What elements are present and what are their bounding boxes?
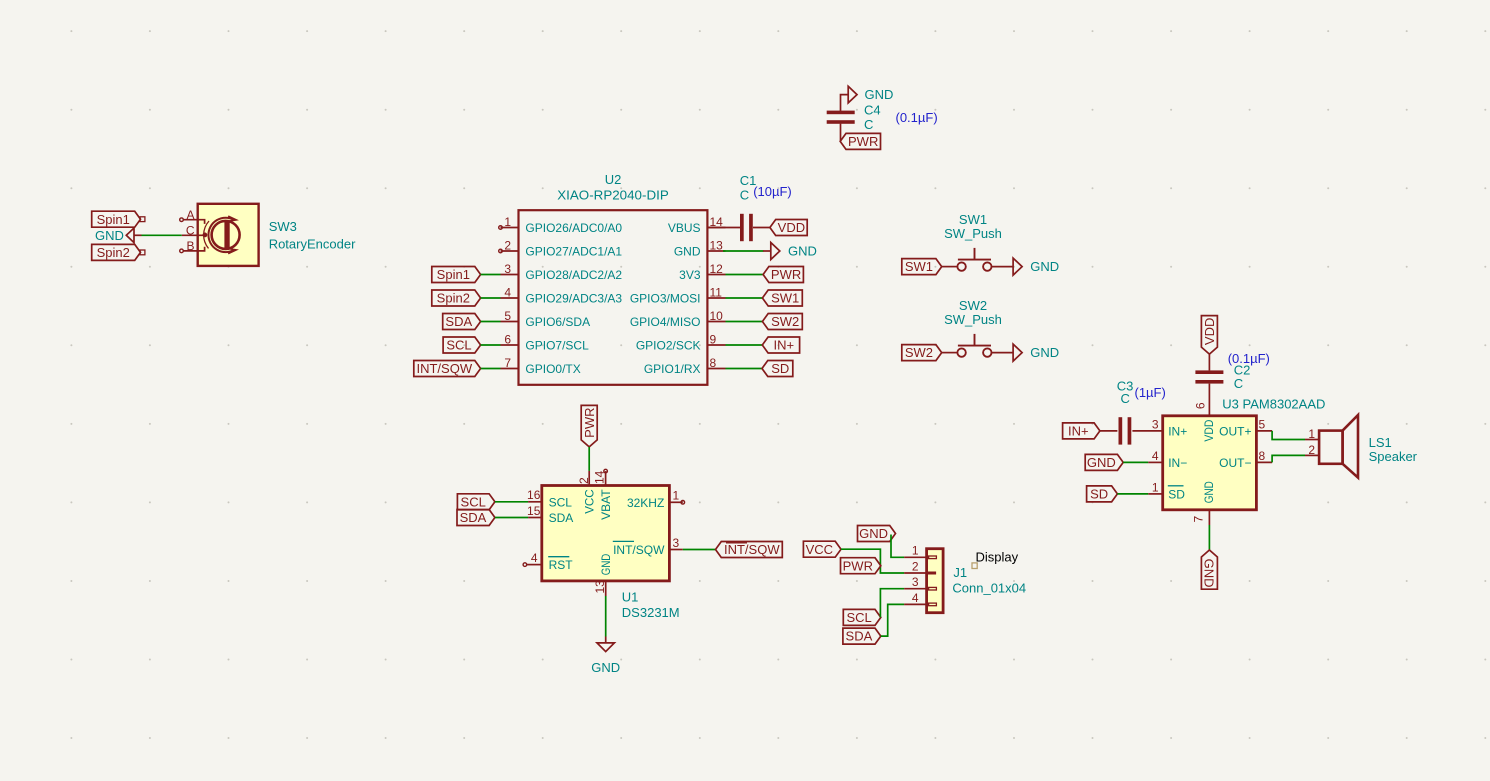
U1 pin 15 SDA (527, 504, 573, 525)
U3 pin 8 OUT- (1219, 449, 1272, 470)
C2 reference (1234, 362, 1251, 377)
gnd flag (at SW2) (1013, 344, 1059, 361)
U2 pin 12 3V3 (679, 262, 725, 282)
svg-text:13: 13 (710, 239, 724, 253)
svg-text:5: 5 (504, 309, 511, 323)
SW3 value RotaryEncoder (269, 237, 356, 252)
U3 pin 1 SD (1148, 480, 1185, 501)
wire U2 pin 10 to SW2 (726, 321, 763, 323)
U3 pin 3 IN+ (1132, 417, 1187, 438)
Display anchor square (972, 563, 977, 569)
LS1 pin 1 (1305, 427, 1319, 441)
U3 pin name GND (1202, 481, 1216, 503)
svg-text:3: 3 (673, 536, 680, 550)
wire GND to J1 pin 1 (891, 535, 904, 558)
svg-text:Spin1: Spin1 (97, 212, 130, 227)
svg-text:SW2: SW2 (905, 345, 933, 360)
U2 pin 6 GPIO7/SCL (501, 333, 590, 353)
wire SDA to U1 pin 15 (495, 517, 528, 519)
svg-text:B: B (186, 239, 194, 253)
wire SCL to J1 pin 3 (880, 589, 904, 618)
svg-text:SCL: SCL (549, 495, 573, 509)
global label VCC (at J1) (803, 541, 841, 557)
wire U3 pin 7 to GND label (1208, 525, 1210, 550)
wire SCL to U1 pin 16 (495, 501, 528, 503)
svg-text:4: 4 (504, 286, 511, 300)
svg-text:SDA: SDA (460, 510, 487, 525)
svg-text:16: 16 (527, 488, 541, 502)
svg-text:VCC: VCC (583, 489, 597, 514)
U2 pin 10 GPIO4/MISO (630, 309, 726, 329)
svg-text:SW_Push: SW_Push (944, 312, 1002, 327)
global label INT/SQW (at U2 pin 7) (414, 361, 481, 377)
global label SDA (at J1) (843, 628, 881, 644)
wire IN+ label to C3 (1100, 430, 1118, 432)
U1 pin 3 INT/SQW (613, 536, 683, 557)
svg-text:GND: GND (95, 228, 124, 243)
global label SD (at U3 pin 1) (1087, 486, 1118, 502)
SW3 reference (269, 219, 297, 234)
wire GND to SW3 pin C (142, 234, 182, 236)
U1 reference (622, 589, 639, 604)
switch SW1 body (942, 248, 1013, 271)
svg-text:2: 2 (912, 559, 919, 573)
U2 pin 3 GPIO28/ADC2/A2 (501, 262, 623, 282)
global label IN+ (at U2 pin 9) (762, 337, 799, 353)
svg-text:INT/SQW: INT/SQW (416, 361, 472, 376)
svg-text:6: 6 (1193, 402, 1207, 409)
svg-text:OUT+: OUT+ (1219, 424, 1251, 438)
speaker LS1 body (1319, 415, 1358, 478)
svg-text:3: 3 (504, 262, 511, 276)
U2 pin 7 GPIO0/TX (501, 356, 581, 376)
SW1 reference (959, 212, 987, 227)
svg-text:VDD: VDD (778, 220, 805, 235)
rotary encoder SW3 body (198, 204, 259, 266)
C3 value (1uF) (1135, 385, 1166, 400)
global label SW1 (at switch SW1) (902, 259, 942, 275)
svg-text:10: 10 (710, 309, 724, 323)
svg-text:GPIO0/TX: GPIO0/TX (525, 362, 580, 376)
svg-text:SD: SD (771, 361, 789, 376)
global label INT/SQW (at U1 pin 3) (716, 542, 783, 558)
gnd flag (net GND at C4) (848, 86, 893, 103)
global label Spin2 (at U2 pin 4) (432, 290, 481, 306)
SW2 value SW_Push (944, 312, 1002, 327)
svg-text:1: 1 (1152, 480, 1159, 494)
U3 reference and value (1222, 397, 1325, 412)
svg-text:GPIO29/ADC3/A3: GPIO29/ADC3/A3 (525, 291, 622, 305)
SW3 pin C (182, 223, 205, 237)
svg-text:6: 6 (504, 333, 511, 347)
J1 reference (953, 565, 967, 580)
C3 value C (1121, 391, 1130, 406)
svg-text:C4: C4 (864, 103, 881, 118)
U2 pin 14 VBUS (668, 215, 726, 235)
wire SCL to U2 pin 6 (481, 344, 501, 346)
svg-text:SDA: SDA (549, 511, 574, 525)
svg-text:SDA: SDA (846, 629, 873, 644)
U1 pin 1 32KHZ (627, 489, 685, 510)
SW2 reference (959, 298, 987, 313)
svg-text:DS3231M: DS3231M (622, 605, 680, 620)
U2 reference (605, 172, 622, 187)
svg-text:GPIO1/RX: GPIO1/RX (644, 362, 701, 376)
svg-text:C: C (186, 223, 195, 237)
svg-text:VBUS: VBUS (668, 221, 701, 235)
svg-text:Display: Display (976, 550, 1019, 565)
svg-text:LS1: LS1 (1369, 435, 1392, 450)
svg-text:4: 4 (531, 551, 538, 565)
svg-text:GND: GND (859, 526, 888, 541)
svg-text:IN+: IN+ (1068, 424, 1089, 439)
svg-text:SCL: SCL (461, 494, 486, 509)
C2 value (0.1uF) (1228, 351, 1270, 366)
U1 pin 4 RST (523, 551, 573, 572)
svg-text:C: C (864, 117, 873, 132)
ground symbol (at U1) (591, 637, 620, 675)
text label Display (976, 550, 1019, 565)
switch SW2 body (942, 334, 1013, 357)
U2 pin 2 GPIO27/ADC1/A1 (499, 239, 623, 259)
svg-text:3: 3 (1152, 417, 1159, 431)
svg-text:Speaker: Speaker (1369, 449, 1418, 464)
svg-text:GPIO4/MISO: GPIO4/MISO (630, 315, 701, 329)
svg-text:SCL: SCL (446, 338, 471, 353)
svg-text:VCC: VCC (806, 542, 833, 557)
svg-text:VDD: VDD (1202, 419, 1216, 441)
C4 value (0.1uF) (896, 110, 938, 125)
svg-text:Spin2: Spin2 (97, 245, 130, 260)
svg-text:VBAT: VBAT (599, 489, 613, 520)
svg-text:SW_Push: SW_Push (944, 226, 1002, 241)
U3 pin 5 OUT+ (1219, 417, 1272, 438)
svg-text:(10µF): (10µF) (753, 184, 792, 199)
wire C1 to VDD label (753, 227, 770, 229)
LS1 reference (1369, 435, 1392, 450)
J1 value Conn_01x04 (952, 580, 1026, 595)
svg-text:SW1: SW1 (905, 259, 933, 274)
U2 pin 9 GPIO2/SCK (636, 333, 726, 353)
gnd flag (at SW1) (1013, 258, 1059, 275)
wire U2 pin 12 to PWR (726, 274, 764, 276)
wire U2 pin 13 to GND flag (723, 250, 764, 252)
global label GND (at U3 pin 7) (1201, 550, 1217, 589)
svg-text:VDD: VDD (1202, 318, 1217, 345)
wire U2 pin 9 to IN+ (726, 344, 763, 346)
svg-text:GPIO26/ADC0/A0: GPIO26/ADC0/A0 (525, 221, 622, 235)
U2 pin 8 GPIO1/RX (644, 356, 726, 376)
wire U1 pin 3 to INT/SQW label (683, 549, 716, 551)
capacitor C2 (1195, 370, 1223, 383)
svg-text:5: 5 (1259, 417, 1266, 431)
U2 value XIAO-RP2040-DIP (557, 187, 669, 202)
junction at SW3 pin C (203, 233, 208, 238)
svg-text:15: 15 (527, 504, 541, 518)
svg-text:INT/SQW: INT/SQW (724, 542, 780, 557)
wire U3 OUT+ to LS1 pin 1 (1272, 431, 1305, 440)
global label SCL (at U1) (457, 494, 495, 510)
J1 pin 4 (904, 591, 927, 605)
U3 pin 4 IN- (1148, 449, 1187, 470)
LS1 value Speaker (1369, 449, 1418, 464)
wire GND to U3 pin 4 (1123, 461, 1148, 463)
svg-text:7: 7 (504, 356, 511, 370)
global label GND (at J1) (858, 526, 896, 542)
capacitor C1 (740, 214, 753, 241)
svg-text:GPIO6/SDA: GPIO6/SDA (525, 315, 590, 329)
svg-text:1: 1 (504, 215, 511, 229)
svg-text:U2: U2 (605, 172, 622, 187)
wire PWR to U1 pin 2 (588, 447, 590, 471)
svg-text:2: 2 (577, 477, 591, 484)
svg-text:J1: J1 (953, 565, 967, 580)
global label SW1 (at U2 pin 11) (762, 290, 802, 306)
svg-text:SCL: SCL (846, 610, 871, 625)
svg-text:GND: GND (1202, 559, 1217, 588)
capacitor C4 (827, 111, 855, 124)
svg-text:SD: SD (1090, 487, 1108, 502)
U3 pin 6 VDD (1208, 384, 1210, 416)
svg-text:RST: RST (549, 558, 574, 572)
svg-text:32KHZ: 32KHZ (627, 496, 664, 510)
svg-text:SW2: SW2 (959, 298, 987, 313)
svg-text:PWR: PWR (582, 407, 597, 437)
dangling end Spin1 (140, 217, 145, 222)
svg-text:A: A (186, 208, 194, 222)
svg-text:GND: GND (591, 660, 620, 675)
global label PWR (at J1) (841, 558, 881, 574)
svg-text:XIAO-RP2040-DIP: XIAO-RP2040-DIP (557, 187, 669, 202)
U1 pin 2 VCC (577, 471, 596, 514)
U1 pin 13 GND (593, 553, 613, 596)
global label SDA (at U2 pin 5) (443, 314, 481, 330)
svg-text:Spin2: Spin2 (437, 291, 470, 306)
svg-text:INT/SQW: INT/SQW (613, 543, 665, 557)
wire Spin1 to U2 pin 3 (481, 274, 501, 276)
svg-text:U3 PAM8302AAD: U3 PAM8302AAD (1222, 397, 1325, 412)
svg-text:GND: GND (1202, 481, 1216, 503)
svg-text:C: C (1121, 391, 1130, 406)
svg-text:SW2: SW2 (771, 314, 799, 329)
global label Spin2 (at SW3) (92, 244, 141, 260)
connector J1 body (Conn_01x04) (927, 549, 944, 613)
svg-text:SW1: SW1 (959, 212, 987, 227)
SW3 pin A (180, 208, 205, 224)
svg-text:GPIO3/MOSI: GPIO3/MOSI (630, 291, 701, 305)
global label SCL (at J1) (843, 609, 881, 625)
svg-text:2: 2 (1308, 443, 1315, 457)
svg-text:3: 3 (912, 575, 919, 589)
svg-text:GND: GND (865, 87, 894, 102)
svg-text:(0.1µF): (0.1µF) (896, 110, 938, 125)
global label VDD (at C1) (770, 220, 807, 236)
wire SDA to J1 pin 4 (881, 604, 904, 636)
svg-text:C2: C2 (1234, 362, 1251, 377)
svg-text:PWR: PWR (771, 267, 801, 282)
svg-text:12: 12 (710, 262, 724, 276)
svg-text:GPIO27/ADC1/A1: GPIO27/ADC1/A1 (525, 244, 622, 258)
C4 value C (864, 117, 873, 132)
svg-text:8: 8 (1259, 449, 1266, 463)
svg-text:8: 8 (710, 356, 717, 370)
svg-text:GND: GND (788, 243, 817, 258)
wire C4 bottom to PWR label (840, 124, 842, 141)
svg-text:RotaryEncoder: RotaryEncoder (269, 237, 356, 252)
svg-text:3V3: 3V3 (679, 268, 701, 282)
svg-text:GPIO2/SCK: GPIO2/SCK (636, 338, 701, 352)
svg-text:1: 1 (1308, 427, 1315, 441)
global label SD (at U2 pin 8) (762, 361, 793, 377)
amplifier U3 body (PAM8302AAD) (1163, 416, 1257, 510)
global label IN+ (at C3) (1063, 423, 1100, 439)
svg-text:SW1: SW1 (771, 291, 799, 306)
U2 pin 5 GPIO6/SDA (501, 309, 591, 329)
U3 pin name VDD (1202, 419, 1216, 441)
svg-text:2: 2 (504, 239, 511, 253)
wire C4 top to GND flag (841, 95, 849, 111)
wire U2 pin 14 to C1 (707, 227, 740, 229)
LS1 pin 2 (1305, 443, 1319, 457)
svg-text:PWR: PWR (843, 558, 873, 573)
svg-text:(1µF): (1µF) (1135, 385, 1166, 400)
global label Spin1 (at SW3) (92, 211, 141, 227)
C3 reference (1117, 379, 1134, 394)
wire VCC to J1 pin 2 (841, 549, 904, 573)
wire U1 pin 13 to ground (605, 596, 607, 637)
svg-text:C: C (740, 188, 749, 203)
wire SD to U3 pin 1 (1117, 493, 1148, 495)
U1 pin 16 SCL (527, 488, 572, 509)
U2 pin 1 GPIO26/ADC0/A0 (499, 215, 623, 235)
U2 pin 4 GPIO29/ADC3/A3 (501, 286, 623, 306)
J1 pin sockets (928, 556, 937, 606)
svg-text:GND: GND (1087, 455, 1116, 470)
J1 pin 2 (904, 559, 927, 573)
C2 value C (1234, 376, 1243, 391)
U3 pin 7 GND (1192, 510, 1210, 525)
svg-text:4: 4 (912, 591, 919, 605)
svg-text:14: 14 (593, 470, 607, 484)
wire SDA to U2 pin 5 (481, 321, 501, 323)
global label PWR (at C4) (840, 133, 880, 149)
svg-text:GND: GND (599, 553, 613, 575)
global label GND (at U3 pin 4) (1085, 454, 1123, 470)
wire INT/SQW to U2 pin 7 (481, 368, 501, 370)
svg-text:U1: U1 (622, 589, 639, 604)
svg-text:SW3: SW3 (269, 219, 297, 234)
svg-text:PWR: PWR (848, 134, 878, 149)
hierarchical label GND (at SW3) (95, 228, 142, 243)
gnd flag (at U2 pin 13) (763, 243, 817, 260)
SW1 value SW_Push (944, 226, 1002, 241)
svg-text:4: 4 (1152, 449, 1159, 463)
J1 pin 1 (904, 544, 927, 558)
SW3 pin B (180, 239, 205, 253)
svg-text:C: C (1234, 376, 1243, 391)
svg-text:SDA: SDA (445, 314, 472, 329)
global label SW2 (at switch SW2) (902, 345, 942, 361)
svg-text:11: 11 (710, 286, 723, 300)
svg-text:GND: GND (1030, 259, 1059, 274)
wire U2 pin 8 to SD (726, 368, 763, 370)
wire Spin2 to U2 pin 4 (481, 297, 501, 299)
svg-text:IN−: IN− (1168, 456, 1187, 470)
wire VDD label to C2 (1208, 354, 1210, 370)
svg-text:GPIO7/SCL: GPIO7/SCL (525, 338, 589, 352)
wire U3 OUT- to LS1 pin 2 (1272, 455, 1305, 462)
svg-text:Spin1: Spin1 (437, 267, 470, 282)
U3 pin 6 number (1193, 402, 1207, 409)
U1 pin 14 VBAT (593, 469, 613, 520)
C4 reference (864, 103, 881, 118)
wire U2 pin 11 to SW1 (726, 297, 763, 299)
svg-text:GND: GND (674, 244, 701, 258)
svg-text:OUT−: OUT− (1219, 456, 1251, 470)
dangling end Spin2 (140, 250, 145, 255)
svg-text:13: 13 (593, 580, 607, 594)
global label SDA (at U1) (457, 510, 495, 526)
U2 pin 13 GND (674, 239, 726, 259)
U1 value DS3231M (622, 605, 680, 620)
U2 pin 11 GPIO3/MOSI (630, 286, 726, 306)
svg-text:GND: GND (1030, 345, 1059, 360)
svg-text:GPIO28/ADC2/A2: GPIO28/ADC2/A2 (525, 268, 622, 282)
J1 pin 3 (904, 575, 927, 589)
C1 value (10uF) (753, 184, 792, 199)
C1 reference (740, 173, 757, 188)
svg-text:IN+: IN+ (1168, 424, 1187, 438)
svg-text:7: 7 (1192, 516, 1206, 523)
capacitor C3 (1119, 417, 1132, 444)
global label SW2 (at U2 pin 10) (762, 314, 802, 330)
svg-text:SD: SD (1168, 487, 1185, 501)
svg-text:9: 9 (710, 333, 717, 347)
svg-text:IN+: IN+ (774, 338, 795, 353)
C1 value C (740, 188, 749, 203)
op-amp U2 body (XIAO-RP2040-DIP) (519, 210, 708, 385)
rtc U1 body (DS3231M) (542, 486, 670, 581)
svg-text:Conn_01x04: Conn_01x04 (952, 580, 1026, 595)
global label Spin1 (at U2 pin 3) (432, 267, 481, 283)
global label PWR (at U2 pin 12) (763, 267, 803, 283)
svg-text:1: 1 (673, 489, 680, 503)
svg-text:1: 1 (912, 544, 919, 558)
global label PWR (at U1 pin 2) (581, 405, 597, 447)
global label SCL (at U2 pin 6) (443, 337, 481, 353)
global label VDD (at U3 pin 6) (1201, 316, 1217, 355)
